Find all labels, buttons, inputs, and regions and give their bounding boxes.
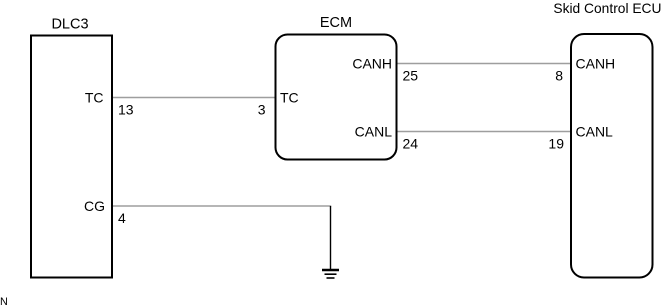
svg-text:4: 4 bbox=[118, 210, 126, 226]
svg-text:DLC3: DLC3 bbox=[51, 17, 88, 33]
svg-text:8: 8 bbox=[555, 68, 563, 84]
svg-text:ECM: ECM bbox=[320, 15, 352, 31]
svg-text:13: 13 bbox=[118, 102, 134, 118]
svg-text:CANH: CANH bbox=[352, 56, 392, 72]
svg-text:Skid Control ECU: Skid Control ECU bbox=[553, 1, 661, 16]
svg-text:3: 3 bbox=[258, 102, 266, 118]
svg-text:TC: TC bbox=[280, 90, 299, 106]
svg-text:N: N bbox=[0, 296, 8, 307]
svg-text:24: 24 bbox=[403, 136, 419, 152]
svg-text:CANL: CANL bbox=[576, 124, 614, 140]
svg-text:CG: CG bbox=[84, 198, 105, 214]
svg-text:CANH: CANH bbox=[576, 56, 616, 72]
svg-text:19: 19 bbox=[548, 136, 564, 152]
svg-text:CANL: CANL bbox=[355, 124, 393, 140]
svg-text:25: 25 bbox=[403, 68, 419, 84]
svg-text:TC: TC bbox=[85, 90, 104, 106]
